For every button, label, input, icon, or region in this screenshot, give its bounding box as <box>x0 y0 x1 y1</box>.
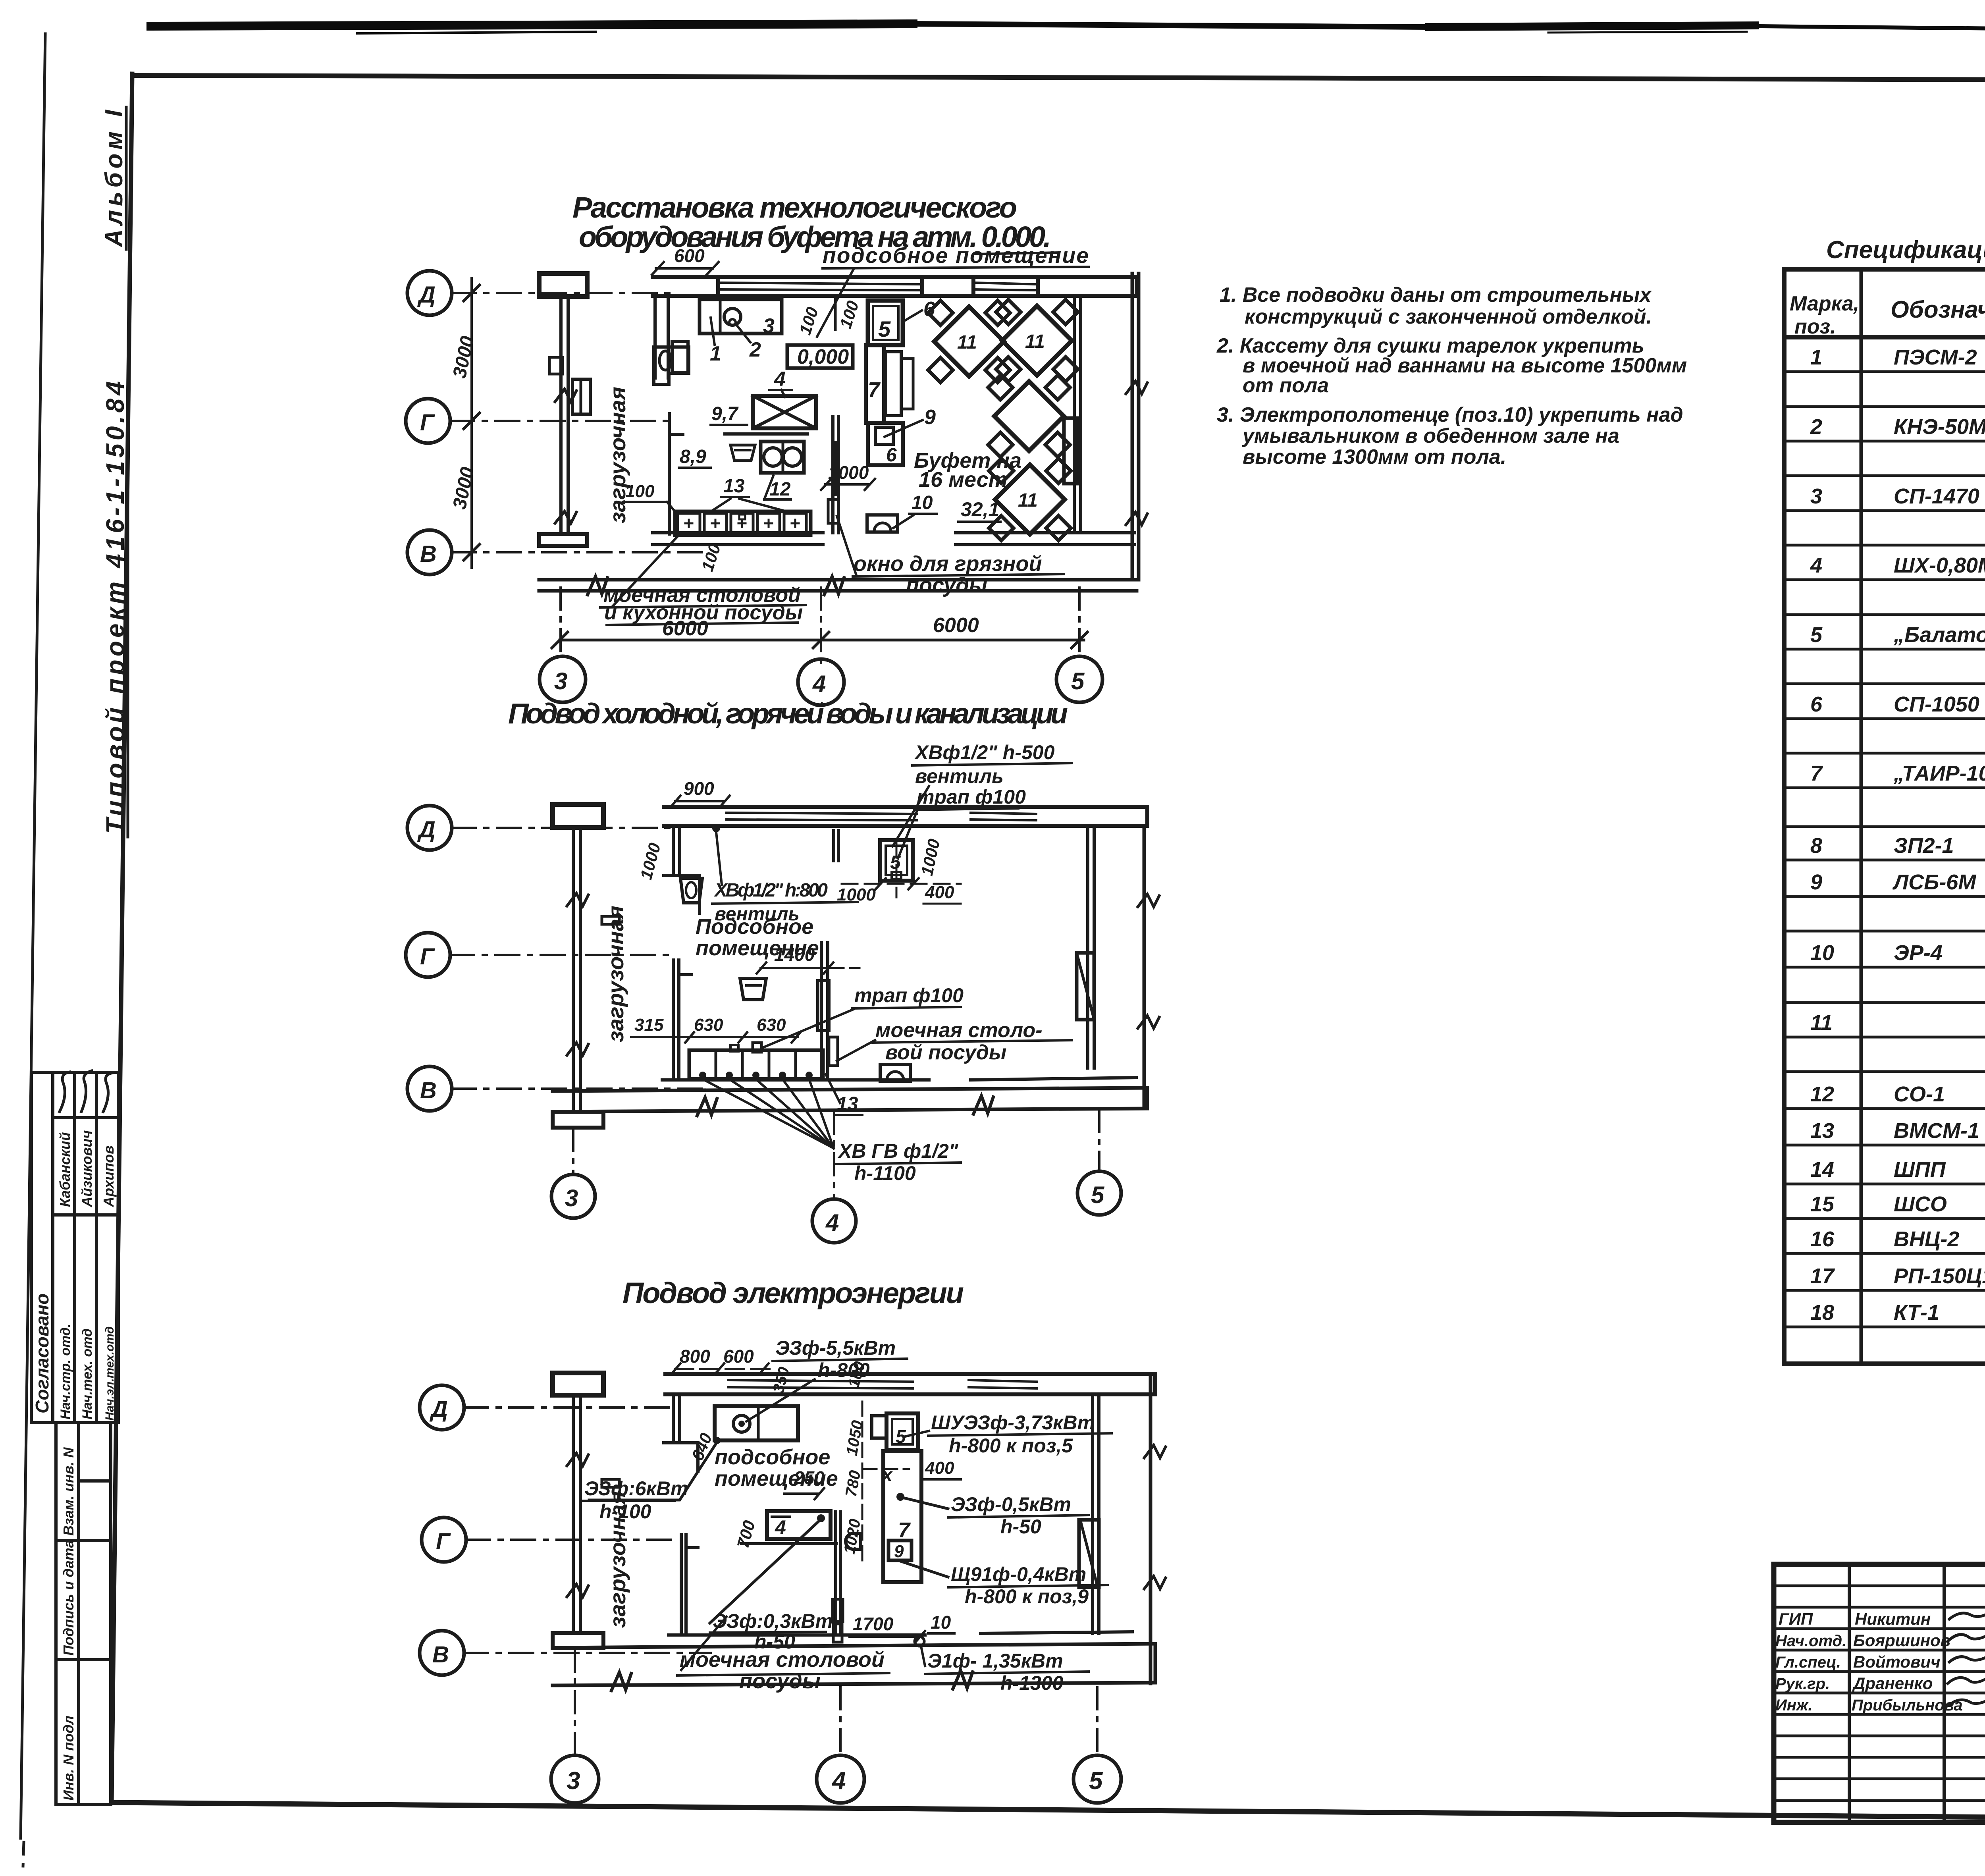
svg-text:СО-1: СО-1 <box>1894 1082 1945 1106</box>
wall: main room left <box>653 296 657 378</box>
svg-text:Г: Г <box>420 944 435 970</box>
svg-text:СП-1050: СП-1050 <box>1894 692 1979 716</box>
item 6 table with item 9 <box>868 423 903 465</box>
svg-text:3: 3 <box>763 314 775 337</box>
svg-text:Альбом I: Альбом I <box>100 109 128 248</box>
wall right inner (p2) <box>1086 826 1089 1068</box>
svg-text:4: 4 <box>831 1767 846 1795</box>
svg-text:9: 9 <box>924 406 936 429</box>
svg-text:ШХ-0,80М: ШХ-0,80М <box>1894 553 1985 577</box>
partition подсобное/dining <box>831 417 834 533</box>
wall: wing top block (p2) <box>553 804 603 827</box>
svg-text:Нач.эл.тех.отд: Нач.эл.тех.отд <box>103 1327 116 1421</box>
svg-text:ХВф1/2" h:800: ХВф1/2" h:800 <box>713 880 828 901</box>
svg-text:7: 7 <box>868 378 881 402</box>
wall: wing bottom block <box>539 534 587 546</box>
svg-text:5: 5 <box>878 316 891 341</box>
wall: right inner <box>1073 296 1076 533</box>
wall: right outer <box>1131 274 1134 580</box>
svg-text:Прибыльнова: Прибыльнова <box>1852 1697 1963 1714</box>
svg-text:трап ф100: трап ф100 <box>854 984 964 1006</box>
axis lines <box>450 293 711 552</box>
svg-text:12: 12 <box>1810 1082 1834 1106</box>
frame border bottom <box>112 1803 1985 1822</box>
basins row (5x ВМСМ-1) <box>675 511 811 535</box>
wall: wing left (p2) <box>572 827 575 1112</box>
svg-text:h-1100: h-1100 <box>854 1162 916 1184</box>
svg-text:конструкций с законченной о: конструкций с законченной отделкой. <box>1245 305 1652 328</box>
equipment: counter items 1-3 <box>700 299 782 334</box>
svg-text:Обозначение: Обозначение <box>1891 296 1985 323</box>
svg-text:Архипов: Архипов <box>100 1145 117 1207</box>
svg-text:13: 13 <box>1810 1119 1834 1143</box>
svg-text:Подвод электроэнергии: Подвод электроэнергии <box>622 1276 964 1309</box>
item 10 (p2) <box>880 1064 910 1081</box>
svg-text:100: 100 <box>625 482 655 501</box>
svg-text:600: 600 <box>723 1346 754 1367</box>
svg-text:Подвод холодной, горячей воды: Подвод холодной, горячей воды и канализа… <box>508 698 1068 730</box>
svg-text:трап ф100: трап ф100 <box>917 786 1026 808</box>
svg-text:400: 400 <box>925 1458 954 1478</box>
sheet frame left thin outer line <box>21 34 45 1838</box>
axis circle В (p3) <box>420 1631 464 1675</box>
svg-text:7: 7 <box>898 1518 911 1542</box>
svg-text:Нач.стр. отд.: Нач.стр. отд. <box>58 1324 73 1419</box>
svg-text:1000: 1000 <box>636 841 664 881</box>
svg-text:9: 9 <box>1810 870 1822 894</box>
axis circle Г (p2) <box>406 933 450 977</box>
grid circles bottom (p2) <box>573 1110 1099 1198</box>
wing door <box>572 379 590 414</box>
item 5 (p2) <box>880 840 913 881</box>
svg-text:15: 15 <box>1810 1192 1835 1216</box>
svg-text:630: 630 <box>694 1015 723 1035</box>
signature rows <box>1774 1586 1985 1801</box>
svg-text:11: 11 <box>1018 490 1038 511</box>
svg-text:Спецификация оборудования: Спецификация оборудования <box>1826 236 1985 264</box>
svg-text:Расстановка технологического: Расстановка технологического <box>572 191 1017 224</box>
top scan band <box>151 24 1985 33</box>
left stamp: Инв/Подпись block <box>56 1423 111 1805</box>
svg-text:ХВ ГВ ф1/2": ХВ ГВ ф1/2" <box>837 1140 959 1162</box>
wall: wing bottom block (p3) <box>553 1633 603 1648</box>
leader to ЭЗф 0,3кВт <box>710 1521 819 1623</box>
svg-text:h-50: h-50 <box>1000 1515 1041 1538</box>
svg-text:5: 5 <box>1071 668 1085 694</box>
mid partition stub <box>832 831 835 861</box>
fridge item 4 (p3) <box>767 1511 831 1539</box>
wire + label ЭЗф 6кВт h-100 <box>589 1442 717 1500</box>
svg-text:подсобное помещение: подсобное помещение <box>823 243 1089 268</box>
item 7 vitrine <box>866 345 884 423</box>
svg-text:Д: Д <box>417 817 436 843</box>
label Э1ф-1,35кВт h-1300 <box>921 1646 925 1666</box>
wall: plan3 top band <box>665 1374 1155 1394</box>
grid circle 5 <box>1056 656 1102 702</box>
svg-text:ПЭСМ-2: ПЭСМ-2 <box>1894 345 1977 369</box>
svg-text:3000: 3000 <box>449 334 478 380</box>
svg-text:В: В <box>420 541 437 567</box>
svg-text:СП-1470: СП-1470 <box>1894 484 1979 508</box>
axis circle В (p2) <box>407 1066 452 1111</box>
svg-text:ВМСМ-1: ВМСМ-1 <box>1894 1119 1979 1143</box>
svg-text:Щ91ф-0,4кВт: Щ91ф-0,4кВт <box>951 1563 1086 1585</box>
frame border left <box>112 74 132 1803</box>
svg-text:16 мест: 16 мест <box>919 468 1008 492</box>
svg-text:ЭР-4: ЭР-4 <box>1894 941 1943 965</box>
svg-text:Инв. N подл: Инв. N подл <box>60 1716 77 1801</box>
partitions mid (p3) <box>680 1535 683 1633</box>
fridge item 4 <box>753 396 816 428</box>
svg-text:Рук.гр.: Рук.гр. <box>1775 1675 1830 1693</box>
svg-text:высоте 1300мм от пола.: высоте 1300мм от пола. <box>1243 445 1506 469</box>
svg-text:Согласовано: Согласовано <box>32 1294 52 1413</box>
svg-text:от пола: от пола <box>1243 374 1329 397</box>
svg-text:3: 3 <box>554 668 567 694</box>
svg-text:моечная столо-: моечная столо- <box>875 1019 1043 1042</box>
svg-text:4: 4 <box>812 671 826 697</box>
svg-text:7: 7 <box>1810 762 1823 785</box>
vertical dim line 3000/3000 <box>470 278 473 568</box>
svg-text:3. Электрополотенце (поз.10) у: 3. Электрополотенце (поз.10) укрепить на… <box>1217 403 1683 426</box>
svg-text:ХВф1/2" h-500: ХВф1/2" h-500 <box>914 741 1055 764</box>
svg-text:Войтович: Войтович <box>1853 1652 1941 1671</box>
wall break marks <box>555 389 576 402</box>
svg-text:Э1ф- 1,35кВт: Э1ф- 1,35кВт <box>927 1650 1063 1672</box>
wall right inner (p3) <box>1091 1394 1094 1633</box>
svg-text:6: 6 <box>1810 692 1823 716</box>
svg-text:6: 6 <box>886 445 897 466</box>
svg-text:4: 4 <box>825 1209 839 1236</box>
svg-text:подсобное: подсобное <box>715 1445 830 1469</box>
wing window <box>549 357 563 374</box>
signature squiggles <box>1948 1609 1985 1705</box>
grid circle 4 <box>798 659 844 705</box>
svg-text:9: 9 <box>894 1542 904 1561</box>
svg-text:1. Все подводки даны от стро: 1. Все подводки даны от строительных <box>1220 283 1652 307</box>
dining table 11 (T4) <box>989 459 1071 540</box>
svg-text:Нач.отд.: Нач.отд. <box>1775 1632 1846 1650</box>
svg-text:5: 5 <box>1091 1182 1105 1208</box>
item 9 (p3) <box>846 1533 861 1549</box>
stove item 1 (p3) <box>715 1406 798 1440</box>
svg-text:9,7: 9,7 <box>711 403 739 424</box>
wall: wing left wall <box>559 296 563 534</box>
axis circle Д <box>407 271 452 315</box>
wall: bottom outer band <box>539 580 1137 591</box>
svg-text:14: 14 <box>1810 1158 1834 1182</box>
svg-text:5: 5 <box>1089 1767 1103 1795</box>
item 5 coffee maker <box>868 301 903 345</box>
моечная west partition <box>672 960 675 1080</box>
wall: wing top block <box>539 274 587 297</box>
left stamp: Согласовано block <box>31 1072 118 1423</box>
svg-text:11: 11 <box>1025 331 1045 352</box>
svg-text:4: 4 <box>1810 553 1822 577</box>
bottom inner wall (p2) <box>662 1078 929 1082</box>
corner washbasin unit <box>654 347 689 384</box>
dims item5 <box>842 842 961 897</box>
svg-text:ЭЗф-0,5кВт: ЭЗф-0,5кВт <box>951 1493 1071 1515</box>
svg-text:h-800 к поз,9: h-800 к поз,9 <box>965 1585 1089 1608</box>
svg-text:10: 10 <box>931 1612 951 1633</box>
svg-text:умывальником в обеденном за: умывальником в обеденном зале на <box>1241 424 1619 447</box>
svg-text:1000: 1000 <box>837 885 876 904</box>
svg-text:ЭЗф:0,3кВт: ЭЗф:0,3кВт <box>713 1610 833 1632</box>
table grid <box>1784 269 1985 1364</box>
svg-text:8: 8 <box>1810 834 1822 858</box>
axis circle Г (p3) <box>422 1517 466 1562</box>
dining table 11 (T1) <box>928 301 1010 382</box>
svg-text:11: 11 <box>1810 1011 1833 1035</box>
svg-text:780: 780 <box>842 1469 864 1498</box>
svg-text:Нач.тех. отд: Нач.тех. отд <box>80 1328 95 1419</box>
svg-text:загрузочная: загрузочная <box>603 906 628 1042</box>
svg-text:10: 10 <box>1810 941 1834 965</box>
подсобное west wall <box>672 826 675 875</box>
washbasin item 10 <box>867 515 898 532</box>
shelf line <box>725 432 807 436</box>
washbasin подсобное <box>680 878 702 903</box>
svg-text:4: 4 <box>774 368 786 391</box>
wall: plan2 top band <box>664 807 1147 826</box>
svg-text:„Балатон”: „Балатон” <box>1893 623 1985 647</box>
svg-text:вентиль: вентиль <box>915 765 1004 787</box>
svg-text:13: 13 <box>723 476 745 497</box>
svg-text:В: В <box>432 1642 449 1668</box>
svg-text:400: 400 <box>925 883 954 902</box>
svg-text:Взам. инв. N: Взам. инв. N <box>60 1447 77 1536</box>
bottom outer band (p3) <box>553 1644 1155 1648</box>
svg-text:900: 900 <box>684 778 714 799</box>
svg-text:КТ-1: КТ-1 <box>1894 1301 1939 1325</box>
level mark 0,000 <box>787 345 853 368</box>
svg-text:Типовой проект 416-1-150.84: Типовой проект 416-1-150.84 <box>101 381 129 834</box>
svg-text:10: 10 <box>912 492 933 513</box>
basins row (p2) <box>689 1050 823 1079</box>
svg-text:1700: 1700 <box>853 1614 894 1634</box>
svg-text:5: 5 <box>1810 623 1823 647</box>
svg-text:3: 3 <box>1810 484 1822 508</box>
svg-text:ВНЦ-2: ВНЦ-2 <box>1894 1227 1959 1251</box>
signature columns <box>1849 1564 1985 1822</box>
svg-text:Марка,: Марка, <box>1790 292 1859 315</box>
svg-text:700: 700 <box>733 1518 759 1550</box>
svg-text:Д: Д <box>417 282 436 308</box>
svg-text:11: 11 <box>957 332 977 353</box>
svg-text:3000: 3000 <box>449 465 478 511</box>
svg-text:ЛСБ-6М: ЛСБ-6М <box>1892 870 1976 894</box>
svg-text:640: 640 <box>688 1431 716 1463</box>
svg-text:250: 250 <box>794 1467 825 1488</box>
svg-text:поз.: поз. <box>1794 315 1836 338</box>
svg-text:Айзикович: Айзикович <box>79 1130 95 1207</box>
svg-text:1000: 1000 <box>917 837 943 877</box>
svg-text:ГИП: ГИП <box>1779 1610 1813 1628</box>
svg-text:800: 800 <box>680 1346 710 1367</box>
wall: plan1 top band <box>653 277 1137 296</box>
item 7 (p3) <box>883 1451 921 1582</box>
svg-text:Инж.: Инж. <box>1775 1697 1813 1714</box>
item 5 (p3) <box>887 1413 918 1450</box>
svg-text:Г: Г <box>420 410 435 436</box>
svg-text:6000: 6000 <box>662 617 708 640</box>
grid circles bottom (p3) <box>575 1650 1097 1754</box>
svg-text:8,9: 8,9 <box>680 446 706 467</box>
svg-text:3: 3 <box>565 1185 578 1211</box>
svg-text:3: 3 <box>567 1767 580 1795</box>
frame border top <box>132 75 1985 81</box>
svg-text:100: 100 <box>836 299 862 331</box>
wall: wing left (p3) <box>572 1395 575 1633</box>
partition left lower <box>668 414 671 534</box>
axis circle В <box>407 530 452 575</box>
svg-text:РП-150Ц13Т: РП-150Ц13Т <box>1894 1264 1985 1288</box>
svg-text:17: 17 <box>1810 1264 1835 1288</box>
svg-text:h-100: h-100 <box>599 1500 651 1523</box>
sink моечная <box>740 978 766 1000</box>
dining table (T3) <box>988 375 1070 457</box>
svg-text:1: 1 <box>710 342 721 365</box>
wall right outer (p2) <box>1143 826 1146 1109</box>
svg-text:окно для грязной: окно для грязной <box>854 552 1042 576</box>
wall right outer (p3) <box>1149 1374 1152 1683</box>
подсобное west wall (p3) <box>672 1394 675 1443</box>
bottom dim 6000+6000 <box>560 639 1084 642</box>
svg-text:Бояршинов: Бояршинов <box>1853 1631 1950 1650</box>
door dining <box>1064 418 1077 484</box>
svg-text:600: 600 <box>674 245 705 266</box>
dining table 11 (T2) <box>996 300 1078 382</box>
burner unit item 12 <box>761 442 804 473</box>
svg-text:32,1: 32,1 <box>961 498 999 521</box>
svg-text:630: 630 <box>757 1015 786 1035</box>
svg-text:Гл.спец.: Гл.спец. <box>1775 1654 1841 1671</box>
fan leaders to ХВ ГВ <box>703 1079 834 1148</box>
svg-text:вой посуды: вой посуды <box>885 1041 1006 1064</box>
svg-text:В: В <box>420 1078 437 1103</box>
svg-text:100: 100 <box>796 305 822 337</box>
svg-text:Никитин: Никитин <box>1855 1610 1931 1628</box>
svg-text:Подсобное: Подсобное <box>696 915 813 939</box>
connection dot + leader <box>712 824 720 832</box>
svg-text:ШУЭЗф-3,73кВт: ШУЭЗф-3,73кВт <box>931 1411 1095 1434</box>
bottom inner wall (p3) <box>669 1633 925 1637</box>
grid circle 3 <box>540 656 586 702</box>
door leaf main left <box>672 341 688 372</box>
svg-text:2: 2 <box>1810 415 1822 439</box>
axis circle Д (p3) <box>420 1385 464 1430</box>
svg-text:ШПП: ШПП <box>1894 1158 1946 1182</box>
bottom outer band (p2) <box>553 1088 1147 1091</box>
svg-text:Подпись и дата: Подпись и дата <box>60 1540 77 1656</box>
svg-text:4: 4 <box>775 1516 786 1539</box>
svg-text:0,000: 0,000 <box>797 345 849 368</box>
wall: wing top block (p3) <box>553 1373 603 1395</box>
axis circle Г <box>406 399 450 443</box>
svg-text:6000: 6000 <box>933 614 979 637</box>
svg-text:ЗП2-1: ЗП2-1 <box>1894 834 1954 858</box>
svg-text:1400: 1400 <box>774 944 815 965</box>
svg-text:ШСО: ШСО <box>1894 1192 1947 1216</box>
svg-text:„ТАИР-106”: „ТАИР-106” <box>1893 762 1985 785</box>
svg-text:ЭЗф-5,5кВт: ЭЗф-5,5кВт <box>775 1337 896 1359</box>
svg-text:315: 315 <box>634 1015 664 1035</box>
svg-text:1: 1 <box>1810 345 1822 369</box>
svg-text:Кабанский: Кабанский <box>57 1132 73 1207</box>
svg-text:КНЭ-50М: КНЭ-50М <box>1894 415 1985 439</box>
svg-text:Драненко: Драненко <box>1852 1674 1933 1693</box>
svg-text:Г: Г <box>436 1529 451 1554</box>
svg-text:ЭЗф:6кВт: ЭЗф:6кВт <box>584 1477 688 1500</box>
partition east of моечная <box>820 943 823 1078</box>
wall: wing bottom block (p2) <box>553 1112 603 1128</box>
svg-text:18: 18 <box>1810 1301 1834 1325</box>
svg-text:16: 16 <box>1810 1227 1835 1251</box>
svg-text:12: 12 <box>769 479 791 500</box>
small sink <box>730 445 755 461</box>
svg-text:посуды: посуды <box>739 1669 821 1693</box>
svg-text:h-800 к поз,5: h-800 к поз,5 <box>949 1434 1073 1457</box>
svg-text:Д: Д <box>429 1396 448 1422</box>
wall: inner south wall segs <box>653 533 1135 545</box>
signatures squiggles <box>60 1072 69 1112</box>
svg-text:моечная столовой: моечная столовой <box>680 1648 885 1672</box>
axis circle Д (p2) <box>407 806 452 850</box>
